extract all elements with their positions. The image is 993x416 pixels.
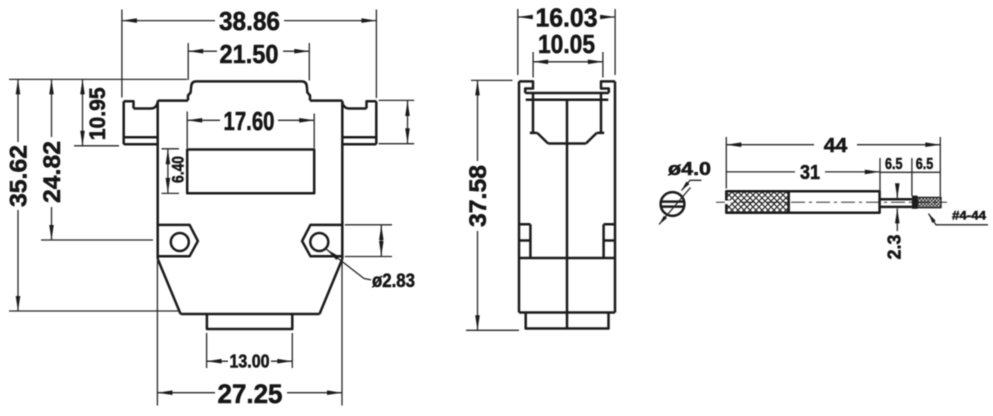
dim 16.03 xyxy=(518,9,615,75)
svg-text:44: 44 xyxy=(824,135,848,157)
side view left notch xyxy=(519,224,530,258)
dim 44 xyxy=(726,137,940,197)
svg-text:#4-44: #4-44 xyxy=(952,208,986,222)
front view right hex boss xyxy=(302,225,342,256)
leader dia 4.0 xyxy=(682,180,702,190)
front view right ear xyxy=(342,101,376,144)
front view body top edge xyxy=(158,99,343,102)
top reference line xyxy=(9,78,187,80)
dim 2.3 xyxy=(896,184,898,198)
label number4-44 with leader xyxy=(929,214,989,225)
side view right notch xyxy=(604,224,615,258)
dim 27.25 xyxy=(157,261,342,406)
side view left wall xyxy=(518,81,521,312)
dim ear height right xyxy=(379,100,415,143)
svg-text:13.00: 13.00 xyxy=(230,352,270,372)
front view bottom trapezoid xyxy=(158,259,343,314)
screw slot notch xyxy=(725,201,731,205)
screw centerline xyxy=(716,201,947,203)
svg-text:35.62: 35.62 xyxy=(6,145,33,207)
dim 17.60 xyxy=(187,112,314,149)
svg-text:ø4.0: ø4.0 xyxy=(668,159,711,179)
dim 38.86 xyxy=(122,10,377,99)
svg-text:2.3: 2.3 xyxy=(884,235,904,260)
front view left hole xyxy=(171,233,189,251)
dim 10.05 xyxy=(533,52,603,78)
dim 35.62 xyxy=(17,79,19,142)
dim 24.82 xyxy=(51,79,53,137)
svg-text:38.86: 38.86 xyxy=(219,6,280,36)
dim 13.00 xyxy=(207,333,293,368)
end view diagonal slash xyxy=(659,188,691,225)
svg-text:10.95: 10.95 xyxy=(85,87,110,140)
screw knurl boundary xyxy=(787,191,790,213)
svg-text:6.40: 6.40 xyxy=(168,156,187,183)
side view inner shelf line xyxy=(526,99,609,102)
front view left ear xyxy=(124,101,158,144)
dim 31 xyxy=(880,158,912,196)
svg-text:37.58: 37.58 xyxy=(465,165,492,227)
side view center parting line xyxy=(566,100,569,329)
svg-text:24.82: 24.82 xyxy=(39,141,66,203)
front view cap xyxy=(188,81,310,100)
dim 21.50 xyxy=(188,43,309,81)
dim 6.5 6.5 baseline xyxy=(880,171,940,173)
end view slot lines xyxy=(661,202,684,207)
screw knurled head xyxy=(726,191,788,213)
end view circle dia 4.0 xyxy=(661,192,685,216)
front view bottom tab xyxy=(207,314,292,329)
side view mid line xyxy=(519,257,615,260)
front view window xyxy=(187,150,314,194)
dim 6.40 xyxy=(162,149,180,194)
dim hex height right xyxy=(345,225,392,257)
side view bottom edge xyxy=(519,311,615,314)
front view body sides xyxy=(158,101,343,259)
screw thin shaft xyxy=(880,199,912,207)
svg-text:16.03: 16.03 xyxy=(536,2,598,32)
side view right wall xyxy=(614,81,617,312)
front view left hex boss xyxy=(158,225,198,256)
svg-text:17.60: 17.60 xyxy=(224,106,275,136)
svg-text:6.5: 6.5 xyxy=(885,156,903,173)
side view top cap with hooks xyxy=(519,81,615,93)
front view right hole xyxy=(310,233,328,251)
dim 10.95 xyxy=(82,79,84,145)
dim 37.58 xyxy=(466,80,519,330)
side view funnel xyxy=(530,93,604,144)
svg-text:27.25: 27.25 xyxy=(218,379,283,409)
svg-text:10.05: 10.05 xyxy=(538,29,595,59)
leader dia 2.83 xyxy=(326,249,371,280)
side view bottom tab xyxy=(526,313,609,329)
screw collar xyxy=(912,196,918,209)
svg-text:21.50: 21.50 xyxy=(220,39,279,69)
svg-text:ø2.83: ø2.83 xyxy=(372,271,415,292)
screw threaded tip xyxy=(918,197,942,207)
svg-text:6.5: 6.5 xyxy=(916,156,934,173)
svg-text:31: 31 xyxy=(800,162,820,184)
